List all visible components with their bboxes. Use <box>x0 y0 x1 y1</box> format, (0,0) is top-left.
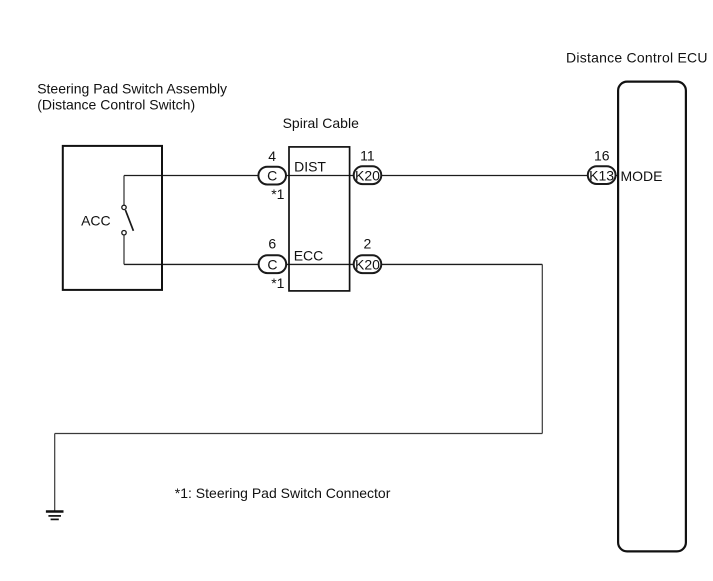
connector K20 pin 11 <box>354 166 382 184</box>
wire: left vertical down to ground <box>54 434 56 512</box>
svg-text:*1: Steering Pad Switch Connec: *1: Steering Pad Switch Connector <box>175 485 391 501</box>
svg-text:*1: *1 <box>271 275 284 291</box>
switch box (Steering Pad Switch Assembly) <box>63 146 162 290</box>
svg-text:*1: *1 <box>271 186 284 202</box>
svg-text:ECC: ECC <box>294 247 324 263</box>
svg-text:ACC: ACC <box>81 213 111 229</box>
svg-text:C: C <box>267 256 277 272</box>
svg-text:Distance Control ECU: Distance Control ECU <box>566 50 708 66</box>
svg-text:11: 11 <box>360 148 375 164</box>
svg-text:4: 4 <box>268 148 276 164</box>
svg-text:Spiral Cable: Spiral Cable <box>283 115 359 131</box>
svg-text:DIST: DIST <box>294 158 326 174</box>
connector C pin 6 <box>259 255 287 273</box>
svg-text:C: C <box>267 168 277 184</box>
ground <box>46 512 64 520</box>
svg-text:K20: K20 <box>355 256 380 272</box>
connector K13 pin 16 <box>588 166 616 184</box>
svg-text:Steering Pad Switch Assembly: Steering Pad Switch Assembly <box>37 80 227 96</box>
wire: right vertical drop from ECC line <box>541 264 543 433</box>
connector C pin 4 <box>258 167 286 185</box>
svg-text:MODE: MODE <box>621 168 663 184</box>
wire: top signal row (switch to ECU) <box>124 175 618 177</box>
svg-text:(Distance Control Switch): (Distance Control Switch) <box>37 97 195 113</box>
spiral cable box <box>289 147 350 291</box>
svg-text:16: 16 <box>594 148 610 164</box>
wire: bottom signal row (switch to right vertical) <box>124 263 542 265</box>
svg-text:2: 2 <box>364 235 372 251</box>
connector K20 pin 2 <box>354 255 382 273</box>
svg-text:6: 6 <box>268 235 276 251</box>
ECU box (Distance Control ECU) <box>618 82 686 552</box>
switch ACC (SPST contact) <box>122 176 134 265</box>
svg-text:K20: K20 <box>355 167 380 183</box>
wire: long bottom horizontal to ground branch <box>55 433 543 435</box>
svg-text:K13: K13 <box>589 167 614 183</box>
